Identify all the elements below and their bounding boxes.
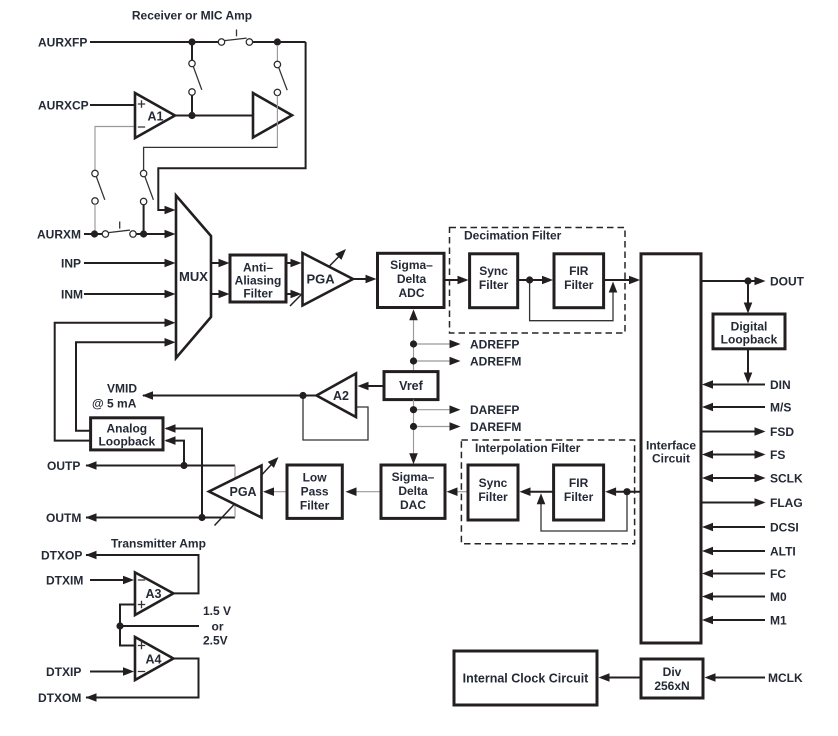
arrow down into DAC top bbox=[409, 453, 418, 464]
node AURXM right bbox=[140, 230, 147, 237]
arrow into sigma-delta ADC bbox=[366, 275, 377, 284]
wire interface to FIR filter (interpolation) bbox=[616, 491, 641, 493]
arrow DCSI into interface bbox=[702, 523, 713, 532]
arrow into A4 bbox=[123, 667, 134, 676]
wire A3 plus input from bias node bbox=[120, 605, 135, 627]
svg-text:INM: INM bbox=[61, 287, 83, 301]
wire AA filter to PGA top bbox=[286, 262, 292, 264]
wire M0 bbox=[712, 596, 765, 598]
op-amp A3 bbox=[135, 572, 173, 615]
svg-text:M/S: M/S bbox=[770, 400, 791, 414]
svg-text:AURXFP: AURXFP bbox=[38, 35, 87, 49]
block analog loopback bbox=[91, 418, 163, 450]
block sigma-delta DAC bbox=[381, 465, 445, 518]
wire differential tap bar behind output PGA bbox=[234, 466, 236, 518]
arrow SCLK into interface bbox=[702, 474, 713, 483]
wire AA filter to PGA bottom bbox=[286, 293, 292, 295]
wire AURXM net bbox=[84, 233, 166, 235]
svg-text:MUX: MUX bbox=[179, 269, 208, 284]
svg-text:2.5V: 2.5V bbox=[203, 633, 228, 647]
svg-text:A1: A1 bbox=[148, 109, 164, 123]
block interface circuit bbox=[641, 254, 701, 643]
arrow into sync filter (decimation) bbox=[458, 276, 469, 285]
node DOUT branch bbox=[744, 277, 751, 284]
svg-text:DTXIM: DTXIM bbox=[46, 573, 83, 587]
wire FIR filter to interface circuit bbox=[604, 279, 631, 281]
svg-text:ADREFM: ADREFM bbox=[470, 354, 521, 368]
block digital loopback bbox=[713, 314, 785, 349]
switch SW2 vertical under AURXFP node (open) bbox=[189, 42, 202, 116]
wire DOUT bbox=[701, 280, 756, 282]
svg-text:Filter: Filter bbox=[478, 490, 508, 504]
label VMID @ 5 mA bbox=[92, 382, 137, 411]
variable-gain arrow of output PGA bbox=[215, 457, 279, 526]
arrow M/S into interface bbox=[702, 403, 713, 412]
svg-text:Filter: Filter bbox=[479, 278, 509, 292]
svg-text:ADC: ADC bbox=[399, 286, 425, 300]
svg-text:Loopback: Loopback bbox=[721, 333, 778, 347]
wire Vref rail down to DAC bbox=[413, 400, 415, 455]
node AURXM left bbox=[91, 230, 98, 237]
svg-text:DTXIP: DTXIP bbox=[46, 665, 81, 679]
svg-text:FS: FS bbox=[770, 448, 785, 462]
wire A2 feedback loop bbox=[303, 396, 368, 441]
arrow into DAC bbox=[447, 487, 458, 496]
arrow into PGA bottom bbox=[291, 290, 302, 299]
wire MCLK to div 256xN bbox=[713, 677, 765, 679]
wire M1 bbox=[712, 619, 765, 621]
svg-text:Circuit: Circuit bbox=[652, 451, 690, 465]
block Vref bbox=[384, 372, 438, 400]
wire digital loopback down to DIN line bbox=[747, 349, 749, 374]
wire AURXFP net bbox=[90, 42, 306, 210]
variable-gain arrow of input PGA bbox=[290, 249, 346, 306]
arrow FS into interface bbox=[702, 450, 713, 459]
wire DTXIM to A3 bbox=[90, 579, 125, 581]
node ADREFP tap bbox=[410, 340, 417, 347]
wire ADC to sync filter bbox=[444, 279, 460, 281]
svg-text:M0: M0 bbox=[770, 590, 787, 604]
svg-text:A2: A2 bbox=[333, 389, 349, 403]
block internal clock circuit bbox=[454, 651, 597, 705]
svg-text:AURXM: AURXM bbox=[37, 227, 81, 241]
arrow into PGA (output) bbox=[263, 487, 274, 496]
arrow into internal clock circuit bbox=[599, 673, 610, 682]
arrow into sync filter (interpolation) bbox=[520, 487, 531, 496]
wire FIR to sync filter (interpolation) bbox=[530, 491, 554, 493]
arrow DIN into interface bbox=[702, 380, 713, 389]
switch SW4 vertical under right AURXFP node (open) bbox=[274, 45, 287, 147]
op-amp A1 bbox=[135, 93, 175, 138]
node A2 output bbox=[299, 392, 306, 399]
wire FSD bbox=[701, 431, 756, 433]
arrow VMID out bbox=[142, 391, 153, 400]
svg-text:Receiver or MIC Amp: Receiver or MIC Amp bbox=[132, 9, 252, 23]
svg-text:Filter: Filter bbox=[564, 490, 594, 504]
svg-text:Internal Clock Circuit: Internal Clock Circuit bbox=[463, 671, 590, 685]
svg-text:INP: INP bbox=[61, 256, 81, 270]
wire sync filter to FIR filter (decimation) bbox=[518, 279, 544, 281]
wire DIN bbox=[712, 384, 765, 386]
wire M/S bbox=[712, 406, 765, 408]
arrow into MUX input 6 bbox=[165, 338, 176, 347]
svg-text:A4: A4 bbox=[146, 652, 162, 666]
node ADREFM tap bbox=[410, 357, 417, 364]
svg-text:FC: FC bbox=[770, 567, 786, 581]
wire DTXOP from A3 output bbox=[86, 555, 199, 593]
wire bias node to 1.5V label bbox=[120, 625, 199, 627]
arrow into analog loopback input B bbox=[165, 436, 176, 445]
arrow into PGA top bbox=[291, 259, 302, 268]
switch SW6 on AURXM (closed) bbox=[102, 222, 136, 238]
svg-text:Vref: Vref bbox=[399, 379, 423, 393]
wire MUX output 1 to anti-aliasing filter bbox=[211, 262, 220, 264]
wire ADREFP bbox=[414, 343, 453, 345]
svg-text:Low: Low bbox=[303, 470, 328, 484]
node OUTP loopback tap bbox=[180, 462, 187, 469]
svg-text:DTXOP: DTXOP bbox=[41, 548, 82, 562]
svg-text:Sync: Sync bbox=[479, 264, 508, 278]
node on AURXFP at A1 branch bbox=[188, 38, 195, 45]
arrow into low pass filter bbox=[346, 487, 357, 496]
svg-text:Filter: Filter bbox=[564, 278, 594, 292]
arrow SCLK out bbox=[755, 474, 766, 483]
wire INM bbox=[84, 293, 166, 295]
svg-text:Sigma–: Sigma– bbox=[392, 470, 435, 484]
arrow into MUX input 1 bbox=[165, 206, 176, 215]
svg-text:Aliasing: Aliasing bbox=[235, 274, 282, 288]
wire A1 output to buffer amp bbox=[175, 115, 253, 117]
arrow into A3 bbox=[123, 576, 134, 585]
svg-text:ALTI: ALTI bbox=[770, 544, 796, 558]
wire low pass filter to PGA bbox=[274, 491, 287, 493]
buffer amp (receiver) bbox=[253, 93, 292, 138]
svg-text:Digital: Digital bbox=[731, 320, 768, 334]
svg-text:FIR: FIR bbox=[569, 476, 589, 490]
op-amp A4 bbox=[135, 637, 173, 680]
svg-text:PGA: PGA bbox=[230, 485, 257, 499]
svg-text:OUTM: OUTM bbox=[46, 511, 81, 525]
arrow M0 into interface bbox=[702, 592, 713, 601]
arrow into FIR filter (decimation) bbox=[542, 276, 553, 285]
wire DAC to low pass filter bbox=[355, 491, 381, 493]
arrow into MUX input 3 bbox=[165, 259, 176, 268]
arrow FC into interface bbox=[702, 569, 713, 578]
wire Vref to A2 input bbox=[366, 385, 384, 387]
svg-text:or: or bbox=[212, 619, 224, 633]
svg-text:Delta: Delta bbox=[397, 272, 427, 286]
wire vref rail up to ADC bbox=[413, 318, 415, 372]
mux MUX bbox=[176, 196, 211, 359]
node A1 output bbox=[188, 112, 195, 119]
svg-text:256xN: 256xN bbox=[654, 679, 689, 693]
wire AURXCP to A1 plus input bbox=[90, 104, 135, 106]
arrow into anti-aliasing filter top bbox=[219, 259, 230, 268]
svg-text:Interpolation Filter: Interpolation Filter bbox=[475, 441, 581, 455]
svg-text:DAREFP: DAREFP bbox=[470, 403, 519, 417]
wire DOUT down to digital loopback bbox=[747, 281, 749, 304]
arrow M1 into interface bbox=[702, 616, 713, 625]
arrow up into FIR output line (decimation) bbox=[609, 282, 618, 293]
wire analog loopback input A from OUTM bbox=[166, 429, 202, 518]
svg-text:FSD: FSD bbox=[770, 425, 794, 439]
svg-text:A3: A3 bbox=[146, 587, 162, 601]
svg-text:ADREFP: ADREFP bbox=[470, 337, 519, 351]
wire INP bbox=[84, 262, 166, 264]
wire A1 minus input feedback bbox=[95, 127, 135, 171]
wire DTXIP to A4 bbox=[90, 671, 125, 673]
wire DAREFM bbox=[414, 426, 453, 428]
wire ADREFM bbox=[414, 360, 453, 362]
svg-text:M1: M1 bbox=[770, 613, 787, 627]
node DAREFM tap bbox=[410, 423, 417, 430]
svg-text:MCLK: MCLK bbox=[768, 671, 803, 685]
wire MUX output 2 to anti-aliasing filter bbox=[211, 293, 220, 295]
amplifier PGA (output) bbox=[209, 466, 262, 518]
block sync filter (interpolation) bbox=[468, 465, 518, 520]
block FIR filter (decimation) bbox=[554, 254, 604, 308]
svg-text:DTXOM: DTXOM bbox=[38, 691, 81, 705]
svg-text:Div: Div bbox=[663, 665, 682, 679]
node DAREFP tap bbox=[410, 406, 417, 413]
wire DAREFP bbox=[414, 409, 453, 411]
arrow into MUX input 2 bbox=[165, 230, 176, 239]
arrow into MUX input 4 bbox=[165, 290, 176, 299]
block sync filter (decimation) bbox=[470, 254, 518, 308]
wire ALTI bbox=[712, 550, 765, 552]
svg-text:FLAG: FLAG bbox=[770, 496, 803, 510]
wire from SW4 down-left to SW5 bbox=[144, 147, 278, 170]
node bias bbox=[116, 622, 123, 629]
arrow up onto FIR output line (interpolation) bbox=[537, 493, 546, 504]
svg-text:VMID: VMID bbox=[107, 382, 137, 396]
wire FC bbox=[712, 573, 765, 575]
svg-text:Pass: Pass bbox=[301, 484, 329, 498]
svg-text:DAREFM: DAREFM bbox=[470, 420, 521, 434]
block anti-aliasing filter bbox=[230, 255, 286, 302]
svg-text:Filter: Filter bbox=[243, 287, 273, 301]
svg-text:OUTP: OUTP bbox=[47, 459, 80, 473]
svg-text:Anti–: Anti– bbox=[243, 261, 273, 275]
arrow DOUT out bbox=[755, 277, 766, 286]
wire interpolation feedback loop bbox=[541, 495, 627, 531]
wire analog loopback output A to MUX input 5 bbox=[55, 323, 166, 441]
svg-text:AURXCP: AURXCP bbox=[38, 98, 89, 112]
wire sync filter to DAC bbox=[457, 491, 468, 493]
arrow up into ADC bottom bbox=[409, 309, 418, 320]
wire decimation feedback loop bbox=[530, 283, 613, 321]
svg-text:Analog: Analog bbox=[106, 421, 147, 435]
svg-text:DAC: DAC bbox=[400, 498, 426, 512]
wire OUTM bbox=[86, 517, 235, 519]
arrow onto DIN line bbox=[744, 373, 753, 384]
arrow ALTI into interface bbox=[702, 547, 713, 556]
svg-text:1.5 V: 1.5 V bbox=[203, 604, 231, 618]
svg-text:PGA: PGA bbox=[307, 272, 336, 287]
node OUTM loopback tap bbox=[198, 514, 205, 521]
op-amp A2 bbox=[317, 374, 357, 418]
arrow into anti-aliasing filter bottom bbox=[219, 290, 230, 299]
arrow into digital loopback bbox=[744, 303, 753, 314]
svg-text:DIN: DIN bbox=[770, 378, 791, 392]
svg-text:DOUT: DOUT bbox=[770, 274, 805, 288]
svg-text:Delta: Delta bbox=[398, 484, 428, 498]
svg-text:@ 5 mA: @ 5 mA bbox=[92, 397, 137, 411]
wire analog loopback input B from OUTP bbox=[166, 441, 184, 466]
arrow FS out bbox=[755, 450, 766, 459]
svg-text:Loopback: Loopback bbox=[98, 434, 155, 448]
svg-text:Sigma–: Sigma– bbox=[390, 258, 433, 272]
wire PGA to sigma-delta ADC bbox=[353, 278, 367, 280]
switch SW1 on AURXFP (closed) bbox=[218, 30, 252, 46]
arrow OUTM out bbox=[86, 513, 97, 522]
arrow into MUX input 5 bbox=[165, 318, 176, 327]
switch SW3 on A1 minus path (open) bbox=[92, 170, 105, 234]
svg-text:Decimation Filter: Decimation Filter bbox=[464, 229, 562, 243]
arrow MCLK into div bbox=[705, 673, 716, 682]
wire analog loopback output B to MUX input 6 bbox=[76, 342, 166, 431]
arrow ADREFP out bbox=[450, 340, 461, 349]
arrow into A2 bbox=[358, 382, 369, 391]
node on AURXFP at right branch bbox=[274, 38, 281, 45]
arrow into interface circuit bbox=[629, 276, 640, 285]
wire OUTP bbox=[86, 465, 235, 467]
arrow into analog loopback input A bbox=[165, 424, 176, 433]
dashed box decimation filter bbox=[450, 228, 626, 334]
arrow DTXOP out bbox=[86, 551, 97, 560]
label 1.5 V or 2.5V bbox=[203, 604, 231, 648]
arrow DTXOM out bbox=[86, 693, 97, 702]
svg-text:FIR: FIR bbox=[569, 264, 589, 278]
arrow DAREFP out bbox=[450, 405, 461, 414]
svg-text:Sync: Sync bbox=[479, 476, 508, 490]
switch SW5 (open) above AURXM bbox=[140, 170, 153, 234]
wire bias node to A4 plus input bbox=[120, 626, 135, 646]
arrow FSD out bbox=[755, 427, 766, 436]
svg-text:Interface: Interface bbox=[646, 438, 696, 452]
amplifier PGA (input) bbox=[303, 253, 354, 306]
wire FS bbox=[711, 454, 756, 456]
arrow DAREFM out bbox=[450, 422, 461, 431]
wire FLAG bbox=[701, 502, 756, 504]
svg-text:DCSI: DCSI bbox=[770, 520, 799, 534]
block FIR filter (interpolation) bbox=[554, 465, 604, 520]
node sync filter output (decimation) bbox=[526, 276, 533, 283]
arrow into FIR filter (interpolation) bbox=[605, 487, 616, 496]
svg-text:Transmitter Amp: Transmitter Amp bbox=[111, 537, 206, 551]
wire DTXOM from A4 output bbox=[86, 659, 199, 698]
block sigma-delta ADC bbox=[378, 253, 445, 307]
node interpolation input tap bbox=[623, 488, 630, 495]
dashed box interpolation filter bbox=[461, 440, 634, 544]
svg-text:SCLK: SCLK bbox=[770, 471, 803, 485]
block div 256xN bbox=[641, 659, 703, 698]
arrow FLAG out bbox=[755, 498, 766, 507]
arrow ADREFM out bbox=[450, 357, 461, 366]
svg-text:Filter: Filter bbox=[300, 498, 330, 512]
arrow OUTP out bbox=[86, 461, 97, 470]
wire SCLK bbox=[711, 477, 756, 479]
wire VMID from A2 output bbox=[143, 395, 317, 397]
wire div 256xN to internal clock circuit bbox=[608, 677, 641, 679]
block low pass filter bbox=[287, 465, 342, 518]
wire DCSI bbox=[712, 526, 765, 528]
